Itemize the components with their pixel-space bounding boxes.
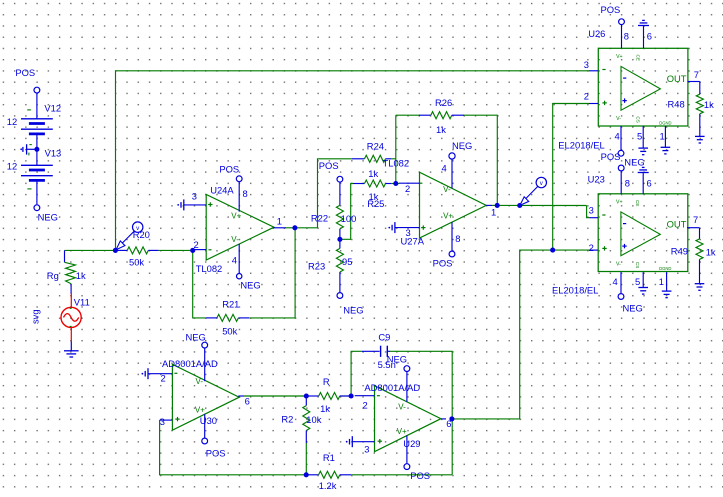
U26 pin 3 stub	[584, 59, 599, 71]
svg-text:CS: CS	[635, 116, 640, 122]
resistor R22 100	[311, 182, 356, 239]
node POS terminal top-left	[15, 67, 39, 93]
resistor R21 50k	[206, 299, 249, 337]
resistor R26 1k	[419, 97, 464, 135]
svg-text:2: 2	[194, 239, 199, 250]
ground under V11	[64, 341, 79, 357]
resistor R49 1k	[671, 239, 716, 284]
U26 pin 5 ground	[637, 126, 648, 155]
U26 pin 7 to R48	[688, 69, 700, 94]
node NEG terminal below R23	[337, 293, 364, 316]
svg-text:V+: V+	[443, 212, 453, 221]
label svg rotated	[30, 309, 41, 324]
node junction U27A output	[495, 203, 500, 208]
svg-text:TL082: TL082	[196, 263, 223, 274]
wire V12 to V13	[36, 134, 38, 165]
svg-text:DGND: DGND	[659, 266, 671, 271]
wire U27A output row	[492, 204, 587, 206]
node junction U30 output	[304, 393, 309, 398]
svg-text:3: 3	[589, 205, 594, 216]
svg-text:V+: V+	[231, 211, 241, 220]
svg-text:NEG: NEG	[38, 211, 58, 222]
svg-text:R26: R26	[435, 97, 452, 108]
svg-text:POS: POS	[15, 67, 35, 78]
svg-text:R48: R48	[668, 98, 685, 109]
U23 pin 3 stub	[589, 205, 598, 218]
svg-text:3: 3	[192, 191, 197, 202]
wire R24 to pin2 node riser	[391, 115, 396, 183]
node junction U27A pin2	[393, 181, 398, 186]
svg-text:NEG: NEG	[623, 303, 643, 314]
svg-text:V-: V-	[196, 377, 204, 386]
wire U24A feedback loop via R21	[193, 228, 295, 318]
svg-text:8: 8	[455, 233, 460, 244]
svg-text:2: 2	[584, 91, 589, 102]
node junction at U24A pin 2	[190, 248, 195, 253]
U23 pin 2 stub	[589, 242, 598, 253]
node POS terminal above U24A	[219, 163, 242, 181]
svg-text:R22: R22	[311, 212, 328, 223]
svg-text:4: 4	[615, 131, 620, 142]
resistor R24 1k	[352, 141, 391, 179]
svg-text:5: 5	[635, 276, 640, 287]
node junction R right	[349, 393, 354, 398]
svg-text:8: 8	[625, 178, 630, 189]
svg-text:C9: C9	[378, 331, 390, 342]
resistor R20 50k	[115, 229, 158, 267]
op-amp U24A TL082	[184, 182, 286, 274]
svg-text:R25: R25	[367, 198, 384, 209]
capacitor C9 5.5n	[362, 331, 396, 370]
svg-text:AD8001A/AD: AD8001A/AD	[364, 382, 420, 393]
svg-text:CE: CE	[635, 200, 640, 206]
svg-text:6: 6	[647, 30, 652, 41]
svg-text:8: 8	[243, 188, 248, 199]
wire riser to U26 pin 2	[553, 104, 589, 251]
svg-text:2: 2	[161, 372, 166, 383]
ground below R48	[695, 136, 705, 143]
U26 pin 8 to POS	[601, 4, 630, 48]
svg-text:1k: 1k	[436, 124, 446, 135]
wire V13 to NEG	[36, 180, 38, 205]
svg-text:V-: V-	[398, 403, 406, 412]
wire C9 top feedback right	[390, 351, 452, 419]
svg-text:NEG: NEG	[452, 140, 472, 151]
svg-text:R24: R24	[367, 141, 384, 152]
svg-text:R1: R1	[323, 452, 335, 463]
voltage probe at U27A output	[517, 177, 546, 208]
U26 pin 6 ground up	[638, 20, 652, 48]
wire from Rg top to R20 node	[65, 249, 116, 251]
svg-text:NEG: NEG	[240, 279, 260, 290]
battery V12	[7, 103, 61, 134]
svg-text:U23: U23	[588, 174, 605, 185]
svg-text:V11: V11	[74, 296, 90, 307]
svg-text:NEG: NEG	[343, 305, 363, 316]
buffer U26 EL2018/EL	[558, 28, 688, 150]
ground at battery midpoint	[20, 144, 39, 155]
battery V13	[7, 147, 61, 189]
svg-text:2: 2	[363, 399, 368, 410]
svg-text:R23: R23	[308, 260, 325, 271]
node NEG terminal above U27A	[449, 140, 472, 159]
wire C9 top feedback riser left	[351, 351, 362, 396]
svg-text:V-: V-	[616, 116, 621, 122]
ground at U24A pin 3	[177, 199, 184, 210]
svg-text:POS: POS	[206, 447, 226, 458]
svg-text:1: 1	[491, 207, 496, 218]
wire U30 output row	[244, 395, 351, 397]
svg-text:POS: POS	[410, 470, 430, 481]
svg-text:EL2018/EL: EL2018/EL	[552, 284, 598, 295]
node junction R20 input	[113, 248, 118, 253]
svg-text:12: 12	[7, 116, 17, 127]
svg-text:POS: POS	[601, 151, 621, 162]
svg-text:7: 7	[693, 214, 698, 225]
buffer U23 EL2018/EL	[552, 174, 688, 296]
svg-text:POS: POS	[319, 160, 339, 171]
op-amp U30 AD8001A/AD	[149, 348, 250, 438]
node junction U29 output	[449, 416, 454, 421]
svg-text:OUT: OUT	[667, 73, 687, 84]
node junction pin2 riser	[550, 248, 555, 253]
svg-text:TL082: TL082	[383, 157, 410, 168]
svg-text:2: 2	[405, 183, 410, 194]
svg-text:6: 6	[647, 178, 652, 189]
svg-text:4: 4	[613, 276, 618, 287]
svg-text:1k: 1k	[320, 403, 330, 414]
resistor R 1k	[306, 376, 351, 414]
U23 pin 8 to NEG	[618, 156, 644, 193]
svg-text:U24A: U24A	[210, 185, 234, 196]
svg-text:4: 4	[442, 162, 447, 173]
svg-text:EL2018/EL: EL2018/EL	[558, 139, 604, 150]
node POS terminal above R22	[319, 160, 343, 182]
wire R22/R23 midpoint to R25	[340, 184, 353, 240]
U26 pin 2 stub	[584, 91, 599, 104]
node NEG terminal above U29	[387, 353, 410, 371]
resistor R23 95	[308, 239, 352, 292]
svg-text:12: 12	[7, 161, 17, 172]
ground below R49	[695, 284, 705, 291]
svg-text:3: 3	[160, 416, 165, 427]
U23 pin 4 to NEG	[613, 272, 643, 313]
svg-text:DGND: DGND	[659, 120, 671, 125]
node POS terminal below U27A	[433, 251, 455, 269]
node junction R22/R23	[337, 237, 342, 242]
svg-text:5: 5	[637, 131, 642, 142]
svg-text:U30: U30	[200, 415, 217, 426]
wire POS to V12	[36, 93, 38, 119]
wire bottom rail right of R1	[351, 474, 452, 476]
svg-text:1: 1	[659, 276, 664, 287]
svg-text:3: 3	[364, 443, 369, 454]
svg-text:1k: 1k	[76, 270, 86, 281]
svg-text:7: 7	[694, 69, 699, 80]
svg-text:POS: POS	[219, 163, 239, 174]
svg-text:6: 6	[245, 396, 250, 407]
wire R26 feedback	[396, 114, 420, 116]
wire R25 to U27A pin 2	[391, 183, 399, 185]
svg-text:95: 95	[342, 256, 352, 267]
svg-text:3: 3	[584, 59, 589, 70]
ground at U29 pin 3	[346, 436, 352, 447]
wire U29 output down to R1 rail	[451, 419, 453, 475]
U23 pin 1 ground	[659, 272, 672, 298]
node NEG terminal above U30	[186, 331, 208, 348]
svg-text:V-: V-	[231, 235, 239, 244]
wire U24A output up to R24	[318, 159, 353, 228]
svg-text:1.2k: 1.2k	[319, 480, 337, 491]
svg-text:V13: V13	[45, 147, 62, 158]
node junction U24A output	[292, 225, 297, 230]
resistor Rg	[47, 250, 86, 294]
svg-text:1k: 1k	[704, 99, 714, 110]
svg-text:8: 8	[624, 30, 629, 41]
svg-text:2: 2	[589, 242, 594, 253]
svg-text:V+: V+	[616, 200, 623, 206]
U26 pin 4 to POS	[601, 126, 624, 162]
svg-text:R2: R2	[281, 413, 293, 424]
svg-text:4: 4	[232, 255, 237, 266]
U23 pin 7 to R49	[687, 214, 700, 239]
svg-text:NEG: NEG	[186, 331, 206, 342]
svg-text:R: R	[323, 376, 330, 387]
svg-text:1k: 1k	[368, 168, 378, 179]
svg-text:U26: U26	[588, 28, 605, 39]
op-amp U29 AD8001A/AD	[353, 372, 452, 464]
svg-text:NEG: NEG	[624, 156, 644, 167]
svg-text:CS: CS	[635, 262, 640, 268]
wiper arrow of R20 with v bubble	[116, 222, 143, 250]
resistor R25 1k	[353, 180, 391, 209]
svg-text:POS: POS	[433, 258, 453, 269]
U26 pin 1 ground	[660, 126, 671, 154]
wire jog into U23 pin 3	[587, 206, 590, 218]
svg-text:1: 1	[660, 131, 665, 142]
svg-text:R21: R21	[222, 299, 239, 310]
svg-text:10k: 10k	[306, 414, 321, 425]
source V11 sine	[61, 294, 90, 342]
svg-text:50k: 50k	[129, 257, 144, 268]
wire U29 output to U23 pin 2	[452, 250, 590, 419]
svg-text:V+: V+	[195, 405, 205, 414]
svg-text:R49: R49	[671, 245, 688, 256]
svg-text:NEG: NEG	[387, 353, 407, 364]
node junction bottom rail	[304, 472, 309, 477]
svg-text:1: 1	[277, 216, 282, 227]
svg-text:svg: svg	[30, 309, 41, 324]
ground at U27A pin 3	[388, 222, 395, 233]
wire U24A output node	[286, 227, 318, 229]
resistor R48 1k	[668, 94, 715, 136]
svg-text:AD8001A/AD: AD8001A/AD	[162, 358, 218, 369]
svg-text:100: 100	[341, 213, 357, 224]
svg-text:50k: 50k	[222, 325, 237, 336]
U23 pin 6 ground up	[638, 167, 652, 193]
svg-text:V-: V-	[443, 185, 451, 194]
wire R26 right to U27A output	[464, 115, 498, 205]
svg-text:V12: V12	[44, 103, 61, 114]
svg-text:U29: U29	[403, 438, 420, 449]
svg-text:OUT: OUT	[667, 219, 687, 230]
wire U30 pin3 loop to bottom rail	[160, 420, 307, 475]
U23 pin 5 ground	[635, 272, 648, 294]
node NEG terminal bottom-left	[34, 205, 58, 223]
svg-text:V-: V-	[616, 261, 621, 267]
node POS terminal below U30	[202, 438, 226, 458]
node NEG terminal below U24A	[237, 274, 261, 291]
svg-text:1k: 1k	[706, 246, 716, 257]
op-amp U27A TL082	[383, 157, 497, 251]
svg-text:Rg: Rg	[47, 270, 59, 281]
svg-text:CE: CE	[635, 55, 640, 61]
wire from R20 node up and across to U26 pin 3	[116, 71, 590, 251]
svg-text:U27A: U27A	[401, 236, 425, 247]
resistor R1 1.2k	[306, 452, 351, 491]
svg-text:POS: POS	[601, 4, 621, 15]
node POS terminal below U29	[404, 464, 430, 481]
svg-text:V+: V+	[616, 54, 623, 60]
resistor R2 10k	[281, 396, 321, 475]
wire R20 output to U24A pin 2 node	[158, 249, 192, 251]
ground at U30 pin 2	[142, 368, 149, 379]
svg-text:V+: V+	[397, 427, 407, 436]
